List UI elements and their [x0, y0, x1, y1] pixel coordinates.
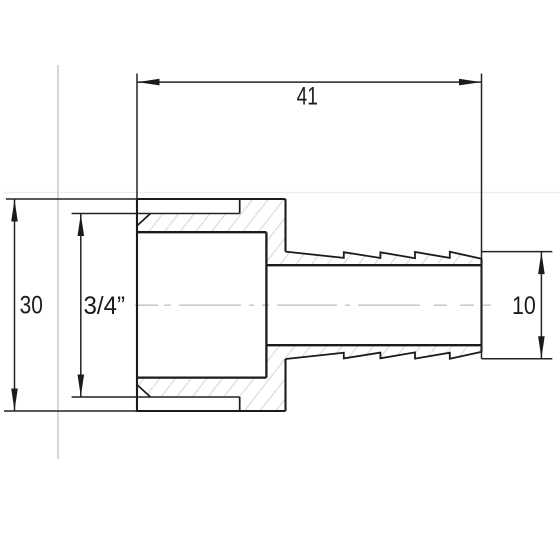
faint artifact line [4, 192, 560, 194]
thread relief vertical top [239, 199, 241, 214]
body bottom edge [137, 410, 286, 412]
svg-text:10: 10 [512, 292, 536, 320]
body right face lower [284, 359, 286, 411]
chamfer top [137, 214, 151, 226]
centerline (axis) [135, 304, 491, 306]
barb sawtooth top [286, 252, 482, 259]
dim 30 arrow top [11, 200, 18, 222]
dim 30 extension top [6, 198, 137, 200]
body top edge [137, 198, 286, 200]
dim 30 arrow bottom [11, 389, 18, 411]
thread relief vertical bottom [239, 397, 241, 411]
stem bore top [266, 264, 481, 266]
dim 10 extension bottom [482, 358, 553, 360]
body left face [136, 198, 138, 412]
dim 10 extension top [482, 251, 553, 253]
hatch top section [137, 199, 482, 265]
thread line top (also 3/4 ext) [72, 213, 240, 215]
stem bore bottom [266, 344, 481, 346]
bore top [137, 231, 266, 233]
thread line bottom (also 3/4 ext) [72, 396, 240, 398]
svg-text:30: 30 [20, 291, 43, 319]
svg-text:41: 41 [297, 82, 318, 110]
stem end face [480, 259, 482, 352]
chamfer bottom [137, 385, 151, 397]
dim 3/4 arrow bottom [78, 375, 85, 397]
construction line (grey vertical) [57, 65, 59, 459]
dim 30 extension bottom [4, 410, 137, 412]
dim 41 line [137, 81, 482, 83]
barb sawtooth bottom [286, 352, 482, 359]
body right face upper [284, 199, 286, 252]
dim 41 arrow right [459, 79, 481, 86]
bore bottom [137, 376, 266, 378]
svg-text:3/4”: 3/4” [84, 292, 126, 320]
hatch bottom section [137, 345, 482, 411]
dim 3/4 line [80, 214, 82, 398]
dim 30 line [14, 199, 16, 411]
dim 41 arrow left [138, 79, 160, 86]
dim 3/4 arrow top [78, 214, 85, 236]
dim 10 arrow top [538, 252, 545, 274]
dim 10 line [540, 252, 542, 359]
dim 41 extension left [136, 74, 138, 200]
socket end wall [265, 232, 267, 377]
dim 10 arrow bottom [538, 336, 545, 358]
dim 41 extension right [481, 74, 483, 359]
